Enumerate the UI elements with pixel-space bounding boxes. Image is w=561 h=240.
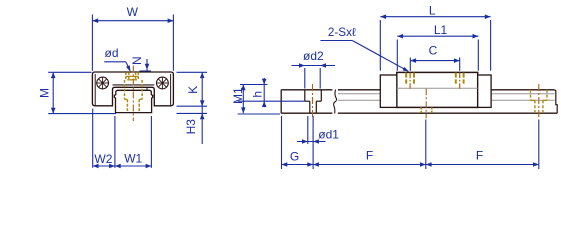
left view: H3 bottom extension line	[177, 112, 208, 114]
right view: rail lines continue to left end seal edge	[379, 89, 381, 91]
right view: open counterbore hole near rail end	[305, 90, 322, 113]
svg-text:G: G	[290, 150, 299, 164]
right view: rail bottom edge	[281, 112, 332, 114]
left view: N reference lines	[140, 70, 152, 72]
right view: L1 extension lines	[396, 40, 398, 71]
left view: W2 W1 extension lines	[92, 109, 94, 168]
left view: block cavity top line	[113, 84, 155, 86]
right view: rail groove lines (gray)	[338, 94, 555, 101]
right view: right rail hole centerline	[538, 84, 540, 118]
left view: rail cross-section profile	[114, 90, 152, 112]
right view: od1 extension lines	[307, 116, 309, 144]
svg-text:W1: W1	[124, 152, 142, 166]
left view: K dimension line	[201, 72, 203, 106]
left view: W extension lines	[91, 15, 93, 71]
right view: rail top edge segments	[281, 89, 332, 91]
right view: right tapped hole Sxl hidden lines	[456, 73, 464, 84]
left view: H3 dimension line with outside arrows	[201, 106, 203, 144]
svg-text:ød1: ød1	[318, 128, 339, 142]
left view: left mounting hole circle with cross spokes	[97, 77, 109, 89]
right view: right end seal	[478, 75, 491, 107]
right view: C dimension line	[410, 60, 459, 62]
right view: od2 dimension with outside arrows	[292, 63, 336, 68]
svg-text:F: F	[366, 149, 373, 163]
right view: G arrows	[282, 162, 288, 167]
svg-text:h: h	[251, 91, 265, 98]
svg-text:N: N	[130, 56, 144, 65]
svg-text:F: F	[476, 149, 483, 163]
right view: counterbore depth reference line	[238, 100, 305, 102]
left view: W2 W1 dimension line	[93, 165, 152, 167]
left view: right mounting hole circle with cross spokes	[157, 77, 169, 89]
svg-text:W2: W2	[94, 152, 112, 166]
left view: rail counterbore hidden lines (olive dashed)	[125, 80, 143, 113]
left view: block inner edge lines (double side walls)	[94, 74, 96, 106]
right view: L extension lines	[379, 20, 381, 71]
left view: block top tapped hole hidden lines (olive)	[126, 72, 139, 80]
right view: od1 dimension line with outside arrows	[297, 139, 326, 144]
svg-text:C: C	[429, 44, 438, 58]
right view: rail right end with step	[555, 90, 558, 113]
right view: right tapped hole centerline	[459, 73, 461, 90]
right view: left tapped hole centerline	[409, 73, 411, 90]
svg-text:L: L	[429, 4, 436, 18]
svg-text:W: W	[127, 5, 139, 19]
left view: K extension lines	[177, 71, 208, 73]
svg-text:K: K	[186, 86, 200, 94]
right view: F arrows	[313, 162, 319, 167]
right view: middle rail hole centerline under block	[425, 89, 427, 119]
right view: top reference line for M1 and h	[240, 84, 268, 86]
right view: C extension lines	[409, 58, 411, 71]
right view: block inner line at rail top (gray)	[397, 87, 478, 89]
svg-text:ød: ød	[104, 46, 118, 60]
right view: M1 dimension line	[242, 85, 244, 114]
right view: right rail counterbore hidden hole (olive dashed)	[531, 90, 548, 113]
technical dimension drawing: miniature linear guide rail and carriage	[0, 0, 561, 174]
svg-text:ød2: ød2	[303, 49, 324, 63]
right view: L1 dimension line	[397, 35, 478, 37]
svg-text:H3: H3	[184, 119, 198, 135]
left view: M extension lines	[48, 71, 91, 73]
svg-text:2-Sxℓ: 2-Sxℓ	[328, 26, 356, 39]
right view: first rail hole centerline	[312, 84, 314, 118]
svg-text:L1: L1	[434, 23, 448, 37]
svg-text:M: M	[37, 88, 51, 98]
right view: G F F dimension line	[282, 164, 539, 166]
right view: block body	[397, 72, 478, 107]
left view: M dimension line	[52, 72, 54, 113]
right view: middle rail hole hidden counterbore walls (olive dashed)	[421, 107, 432, 113]
left view: carriage block outline (cross-section)	[92, 72, 173, 106]
left view: N dimension line	[146, 59, 148, 91]
left view: rail hole centerline	[132, 66, 134, 122]
right view: G F F extension lines	[281, 116, 283, 169]
right view: rail break line (zigzag)	[334, 90, 337, 114]
left view: W dimension line	[92, 20, 173, 22]
right view: od2 extension lines	[304, 68, 306, 89]
right view: left tapped hole Sxl hidden lines	[406, 73, 414, 84]
right view: rail left end	[280, 90, 282, 113]
right view: left end seal	[380, 75, 397, 107]
right view: h dimension line with outside arrows	[263, 78, 265, 107]
right view: rail bottom reference line	[238, 113, 280, 115]
right view: L dimension line	[380, 16, 490, 18]
